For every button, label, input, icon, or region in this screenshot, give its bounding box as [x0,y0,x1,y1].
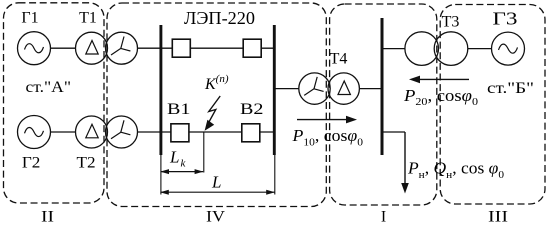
svg-text:P20, cosφ0: P20, cosφ0 [403,86,479,108]
transformer T3 [405,32,439,66]
svg-text:I: I [381,209,386,226]
wire T3 to G3 [468,48,492,50]
svg-text:Г1: Г1 [21,10,38,27]
wire bus2 to T4 [276,88,300,90]
svg-text:IV: IV [206,209,225,226]
busbar 1 [159,25,162,155]
dimension L [161,191,275,193]
busbar 2 [273,25,276,155]
transformer T1 [76,32,108,64]
dimension Lk [161,171,204,173]
fault point extension line [203,132,205,173]
breaker B1 [171,124,189,142]
svg-text:P10, cosφ0: P10, cosφ0 [291,126,363,148]
wire T1 to bus1 and LEP top line to bus2 [138,47,275,49]
zone box III [440,5,545,205]
wire T4 to bus3 [359,88,380,90]
P10 arrow [297,119,348,121]
svg-text:Т4: Т4 [330,51,348,68]
generator G2 [18,116,51,149]
busbar 3 [381,18,384,155]
wire T2 to bus1 and LEP bottom line to bus2 [138,131,275,133]
wire bus3 to T3 [383,48,406,50]
bus2 extension line [274,155,276,195]
svg-text:Г2: Г2 [22,155,41,172]
generator G1 [18,32,51,65]
fault lightning arrow K(n) [208,96,220,123]
svg-text:Т3: Т3 [442,14,460,31]
svg-text:II: II [41,209,54,226]
svg-text:В1: В1 [167,101,191,118]
svg-text:L: L [211,172,221,191]
svg-text:ст."А": ст."А" [26,79,72,96]
breaker square top-2 [243,39,261,57]
breaker square top-1 [172,39,190,57]
zone box IV [107,3,326,207]
svg-text:В2: В2 [240,101,264,118]
svg-text:III: III [488,209,508,226]
svg-text:ЛЭП-220: ЛЭП-220 [184,8,255,28]
wire G2 to T2 [51,131,76,133]
wire G1 to T1 [51,47,76,49]
P20 arrow [418,78,469,80]
bus1 extension line [160,155,162,195]
breaker B2 [242,124,260,142]
zone box I [330,4,437,205]
generator G3 [492,32,525,65]
zone box II [4,3,105,203]
transformer T4 [299,73,330,104]
svg-text:Г3: Г3 [493,8,518,28]
transformer T2 [76,116,108,148]
load line and arrow [383,131,405,133]
svg-text:Т1: Т1 [79,10,97,27]
svg-text:Т2: Т2 [77,155,96,172]
svg-text:ст."Б": ст."Б" [487,80,534,97]
